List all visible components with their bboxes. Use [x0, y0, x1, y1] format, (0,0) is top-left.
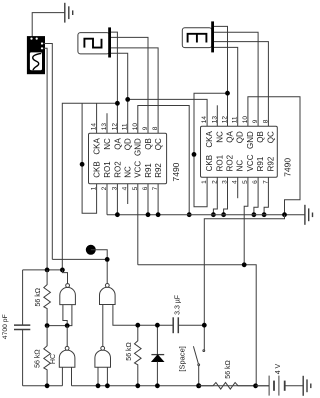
svg-text:QC: QC	[266, 131, 275, 143]
svg-text:QD: QD	[124, 138, 133, 150]
U1 pin 3 wire to bus	[116, 184, 118, 215]
junction R2 bottom	[45, 383, 50, 388]
wire scope channel B	[43, 48, 47, 270]
svg-text:12: 12	[111, 123, 118, 131]
U1 pin 14 CKA stub	[96, 103, 98, 133]
junction G4 input B	[105, 383, 110, 388]
svg-text:8: 8	[152, 126, 159, 130]
ground top-left	[65, 3, 73, 23]
svg-text:7: 7	[152, 186, 159, 190]
junction U2 pin2	[211, 212, 216, 217]
svg-text:7: 7	[262, 180, 269, 184]
node test point	[86, 245, 107, 260]
ground mid-right	[305, 205, 313, 225]
U2 pin 1 CKB loop wire	[194, 93, 228, 207]
label HC	[50, 354, 57, 364]
U2 pin 5 VCC wire	[244, 177, 248, 264]
junction node R1 R2	[45, 323, 50, 328]
U1 pin 1 CKB loop wire	[82, 103, 97, 213]
svg-text:3.3 µF: 3.3 µF	[175, 295, 182, 315]
svg-text:1: 1	[91, 186, 98, 190]
svg-text:10: 10	[242, 116, 249, 124]
svg-text:13: 13	[101, 123, 108, 131]
bottom rail left	[23, 385, 63, 387]
svg-text:5: 5	[132, 186, 139, 190]
svg-text:R92: R92	[154, 163, 163, 178]
U1 pin labels bottom row	[93, 161, 164, 178]
junction U1 GND at bus	[187, 212, 192, 217]
junction on CKB loop	[80, 162, 85, 167]
junction U2 pin7	[262, 212, 267, 217]
display DS2 digit 3	[182, 21, 214, 52]
svg-text:9: 9	[142, 126, 149, 130]
junction U1 pin7 bus	[156, 212, 161, 217]
bottom rail right	[72, 385, 270, 387]
svg-text:R91: R91	[256, 156, 265, 171]
junction C2 right	[202, 323, 207, 328]
svg-text:11: 11	[122, 123, 129, 130]
junction U1 pin6 bus	[146, 212, 151, 217]
svg-text:R91: R91	[144, 163, 153, 178]
svg-text:2: 2	[211, 180, 218, 184]
NAND gate G3	[59, 346, 75, 367]
U1 pin numbers bottom	[91, 186, 160, 190]
label R2 56k	[34, 349, 41, 367]
wire CK bus node	[62, 103, 117, 270]
svg-text:13: 13	[211, 116, 218, 124]
svg-text:4: 4	[232, 180, 239, 184]
svg-text:R92: R92	[266, 156, 275, 171]
junction U1 pin3 bus	[115, 212, 120, 217]
capacitor C2 3.3uF	[173, 317, 204, 333]
svg-text:NC: NC	[215, 131, 224, 143]
svg-text:56 kΩ: 56 kΩ	[35, 288, 42, 306]
svg-text:14: 14	[91, 123, 98, 131]
svg-text:56 kΩ: 56 kΩ	[225, 360, 232, 378]
junction U2 pin12	[225, 91, 230, 96]
wire DS1 seg to U1 pin9	[111, 37, 148, 133]
svg-text:9: 9	[252, 119, 259, 123]
label 4700 pF	[2, 314, 9, 339]
junction VCC U2	[242, 262, 247, 267]
wire DS1 seg to U1 pin11	[111, 53, 128, 133]
U1 pin 10 GND wire to ground bus	[138, 106, 189, 215]
svg-text:GND: GND	[134, 138, 143, 156]
U2 pin 6 wire to bus	[254, 177, 258, 214]
svg-text:3: 3	[111, 186, 118, 190]
svg-text:HC: HC	[50, 354, 57, 364]
U2 pin numbers bottom	[201, 180, 269, 184]
svg-text:1: 1	[201, 180, 208, 184]
G2 input wires	[103, 305, 173, 347]
capacitor C1 4700pF	[14, 270, 30, 386]
wire DS2 seg to U2 pin12	[214, 26, 228, 126]
svg-text:56 kΩ: 56 kΩ	[126, 342, 133, 360]
ground bus	[107, 214, 305, 216]
svg-text:14: 14	[201, 116, 208, 124]
svg-text:2: 2	[101, 186, 108, 190]
junction node gate1 inputs	[65, 323, 70, 328]
svg-text:QA: QA	[226, 131, 235, 143]
junction U2 pin3	[221, 212, 226, 217]
wire DS2 seg to U2 pin9	[214, 32, 258, 126]
junction gate1 output	[60, 268, 65, 273]
svg-text:RO1: RO1	[103, 161, 112, 178]
svg-text:8: 8	[262, 119, 269, 123]
svg-text:CKA: CKA	[205, 131, 214, 148]
G4 input wires	[98, 367, 107, 386]
wire U1 QD to U2 CKA	[128, 99, 207, 126]
U2 pin labels top row	[205, 131, 275, 149]
svg-text:3: 3	[222, 180, 229, 184]
svg-text:[Space]: [Space]	[177, 346, 186, 371]
label R1 56k	[35, 288, 42, 306]
G1 input wires	[63, 305, 72, 326]
svg-text:VCC: VCC	[246, 154, 255, 171]
junction R3 top	[135, 323, 140, 328]
wire gate2 output rail	[52, 259, 107, 283]
svg-text:56 kΩ: 56 kΩ	[34, 349, 41, 367]
U2 pin 2 wire to bus	[213, 177, 217, 214]
svg-text:12: 12	[222, 116, 229, 124]
wire DS2 seg to U2 pin8	[214, 42, 268, 127]
U1 pin 2 wire to bus	[106, 184, 108, 215]
U1 pin 6 wire to bus	[147, 184, 149, 215]
U2 pin 3 wire to bus	[224, 177, 228, 214]
svg-text:CKB: CKB	[205, 155, 214, 171]
resistor R4 56k horizontal	[199, 383, 256, 390]
svg-text:4: 4	[122, 186, 129, 190]
svg-text:CKB: CKB	[93, 161, 102, 177]
label U1 7490	[171, 162, 181, 181]
label Space	[177, 346, 186, 371]
svg-text:RO1: RO1	[215, 154, 224, 171]
U2 pin 4 NC stub	[237, 177, 239, 198]
svg-text:6: 6	[252, 180, 259, 184]
svg-text:GND: GND	[246, 131, 255, 149]
svg-text:NC: NC	[124, 166, 133, 178]
junction gate2 output	[105, 257, 110, 262]
svg-text:11: 11	[232, 116, 239, 123]
diode D1	[151, 325, 164, 386]
junction R1 top	[45, 268, 50, 273]
ground bottom-right	[303, 376, 311, 396]
switch S1 space	[193, 346, 204, 386]
U2 pin numbers top	[201, 116, 269, 124]
svg-text:QD: QD	[236, 131, 245, 143]
U1 pin numbers top	[91, 123, 160, 131]
U2 pin 7 wire to bus	[264, 177, 268, 214]
svg-text:RO2: RO2	[226, 154, 235, 171]
wire node to G3 output	[66, 326, 68, 347]
U2 pin 10 GND wire	[248, 97, 300, 215]
svg-text:NC: NC	[236, 160, 245, 172]
label 4V	[275, 363, 282, 374]
junction U1 pin11	[125, 97, 130, 102]
wire ground spur to switch	[204, 215, 284, 350]
junction diode top	[155, 323, 160, 328]
label R3 56k	[126, 342, 133, 360]
oscilloscope	[27, 37, 44, 74]
junction D1 bottom	[155, 383, 160, 388]
wire gate1 output rail	[23, 269, 63, 271]
svg-text:10: 10	[132, 123, 139, 131]
IC U1 7490 body	[89, 133, 167, 183]
svg-text:CKA: CKA	[93, 138, 102, 155]
U1 pin 13 NC stub	[106, 113, 108, 133]
junction ground drop	[282, 212, 287, 217]
junction on U2 CKB loop	[192, 152, 197, 157]
svg-text:6: 6	[142, 186, 149, 190]
junction U2 pin6	[252, 212, 257, 217]
wire DS2 seg to U2 pin11	[214, 47, 238, 126]
wire scope ground	[32, 13, 65, 37]
G3 input wires	[62, 367, 71, 386]
label 3.3 uF	[175, 295, 182, 315]
svg-text:QB: QB	[256, 131, 265, 143]
U1 pin 5 VCC wire	[137, 184, 139, 265]
junction battery drop	[253, 383, 258, 388]
svg-text:7490: 7490	[283, 158, 293, 177]
resistor R2 56k	[44, 326, 51, 386]
U1 pin labels top row	[93, 138, 164, 156]
junction G4 input A	[96, 383, 101, 388]
svg-text:QA: QA	[113, 138, 122, 150]
label U2 7490	[283, 158, 293, 177]
resistor R1 56k	[44, 270, 51, 326]
junction switch bottom	[196, 383, 201, 388]
resistor R3 56k	[135, 325, 142, 386]
svg-text:7490: 7490	[171, 162, 181, 181]
wire DS1 seg to U1 pin12	[111, 32, 117, 133]
svg-text:VCC: VCC	[134, 161, 143, 178]
svg-text:NC: NC	[103, 138, 112, 150]
NAND gate G1	[60, 284, 76, 305]
svg-text:QB: QB	[144, 138, 153, 150]
NAND gate G2	[100, 284, 116, 305]
IC U2 7490 body	[201, 126, 278, 177]
U2 pin 13 NC stub	[216, 105, 218, 126]
svg-text:4 V: 4 V	[275, 363, 282, 374]
label R4 56k	[225, 360, 232, 378]
VCC rail	[138, 265, 256, 386]
svg-text:5: 5	[242, 180, 249, 184]
svg-text:QC: QC	[154, 138, 163, 150]
wire DS1 seg to U1 pin8	[111, 48, 158, 133]
junction R3 bottom	[135, 383, 140, 388]
U1 pin 7 wire to bus	[157, 184, 159, 215]
node rail R1 R2 gates	[47, 325, 67, 327]
wire scope channel A	[43, 44, 52, 260]
NAND gate G4	[95, 346, 111, 367]
display DS1 digit 2	[78, 27, 111, 57]
junction U1 pin12	[115, 101, 120, 106]
svg-text:RO2: RO2	[113, 161, 122, 178]
svg-text:4700 pF: 4700 pF	[2, 314, 9, 339]
U2 pin labels bottom row	[205, 154, 275, 171]
battery BT1 4V	[256, 376, 304, 396]
U1 pin 4 NC stub	[127, 184, 129, 204]
wire gate1 output drop	[62, 270, 67, 284]
